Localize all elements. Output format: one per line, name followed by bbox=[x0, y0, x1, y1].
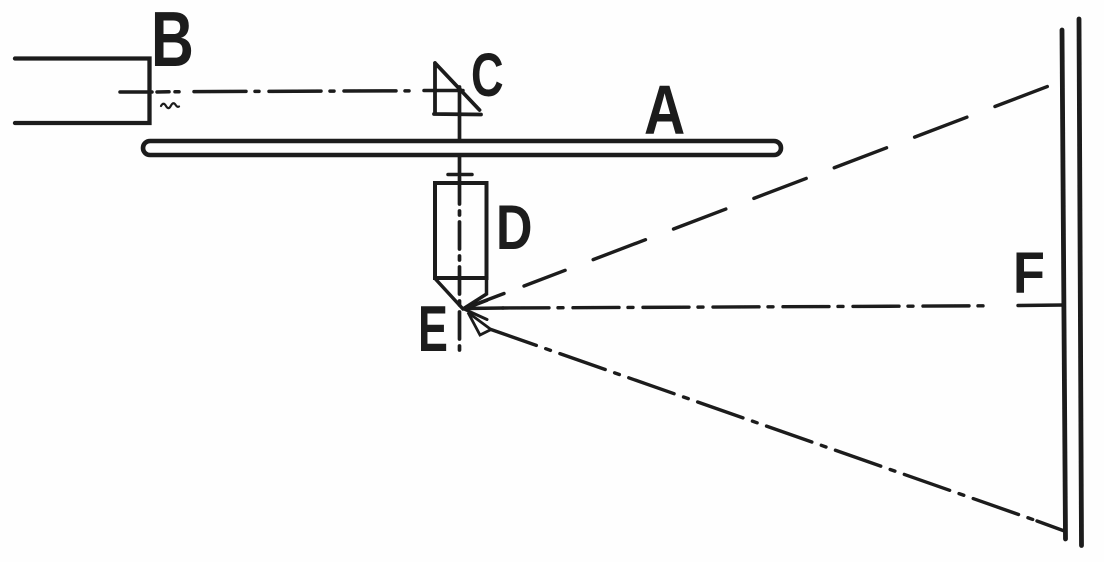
lamp housing B (open-left box) bbox=[15, 59, 150, 124]
upper dashed ray E to top of screen bbox=[467, 294, 504, 308]
optical axis B to C (dash-dot) bbox=[157, 90, 169, 94]
svg-text:A: A bbox=[644, 70, 685, 149]
small scribble mark under axis bbox=[161, 103, 179, 108]
vertical axis through C, A, D to E (solid then dash-dot) bbox=[458, 87, 462, 174]
svg-text:C: C bbox=[471, 41, 504, 109]
tick on vertical axis above D bbox=[448, 173, 472, 177]
prism E below D bbox=[435, 278, 487, 309]
slide/stage bar A (long thin bar) bbox=[143, 141, 781, 155]
solid end of ray at screen bbox=[1018, 303, 1064, 307]
svg-text:D: D bbox=[496, 193, 532, 264]
svg-text:B: B bbox=[151, 0, 194, 83]
screen F (two vertical lines) bbox=[1062, 30, 1066, 539]
prism C (right triangle) bbox=[434, 63, 481, 115]
horizontal ray E to F (dash-dot) bbox=[464, 306, 503, 310]
axis tick inside box B bbox=[120, 90, 152, 94]
open arrowhead of lower ray at E bbox=[468, 313, 491, 336]
condenser housing D (rectangle) bbox=[435, 183, 487, 278]
arrowhead at E on horizontal ray bbox=[465, 301, 487, 320]
svg-text:F: F bbox=[1013, 240, 1045, 305]
lower dash-dot ray E to bottom of screen bbox=[491, 330, 1040, 523]
axis tick through prism C bbox=[424, 89, 463, 93]
svg-text:E: E bbox=[418, 292, 448, 365]
